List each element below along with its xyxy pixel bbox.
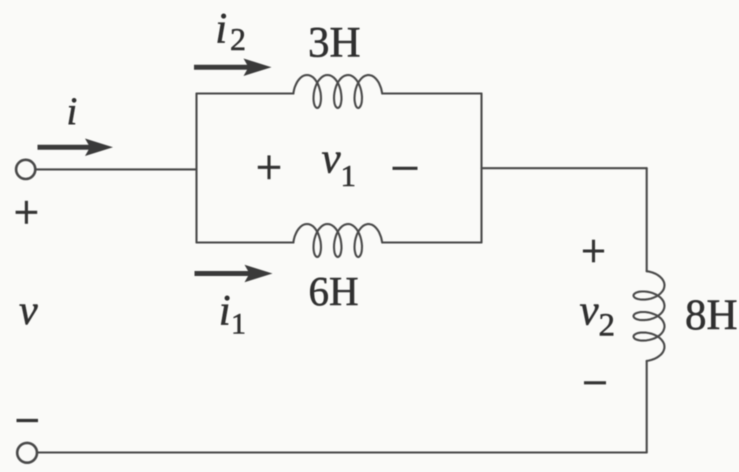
svg-text:v: v (19, 288, 38, 334)
wire output middle (482, 167, 647, 169)
inductor L2 3H (293, 75, 382, 108)
inductor L3 8H (634, 271, 665, 361)
svg-text:6H: 6H (309, 268, 359, 314)
current arrow i2 (194, 65, 249, 70)
terminal bottom-left (17, 443, 37, 463)
svg-text:2: 2 (599, 308, 616, 344)
svg-text:8H: 8H (685, 292, 738, 339)
svg-text:1: 1 (341, 158, 357, 193)
svg-text:v: v (322, 136, 342, 183)
label minus v (left) (17, 419, 39, 422)
label minus v1 (393, 167, 418, 170)
label minus v2 (584, 381, 606, 384)
wire box right side (480, 94, 482, 243)
wire box bottom-left (197, 241, 294, 243)
wire bottom return (37, 451, 647, 453)
wire box left side (195, 94, 197, 243)
wire right top vertical (646, 168, 648, 271)
wire box bottom-right (383, 241, 482, 243)
current arrow i1 (195, 271, 250, 276)
svg-text:i: i (67, 90, 78, 133)
wire box top-right (383, 92, 482, 94)
svg-text:1: 1 (231, 308, 246, 341)
svg-text:i: i (219, 287, 231, 334)
wire box top-left (197, 92, 294, 94)
inductor L1 6H (293, 224, 382, 257)
svg-text:3H: 3H (308, 20, 361, 67)
label plus v1 (258, 166, 280, 169)
svg-text:i: i (215, 6, 227, 53)
label plus v2 (583, 249, 604, 252)
terminal top-left (16, 160, 35, 179)
svg-text:v: v (580, 288, 600, 335)
svg-text:2: 2 (230, 21, 246, 57)
wire input top (35, 168, 196, 170)
label plus v (left) (16, 211, 38, 214)
current arrow i (38, 145, 91, 150)
wire right bottom vertical (646, 361, 648, 452)
